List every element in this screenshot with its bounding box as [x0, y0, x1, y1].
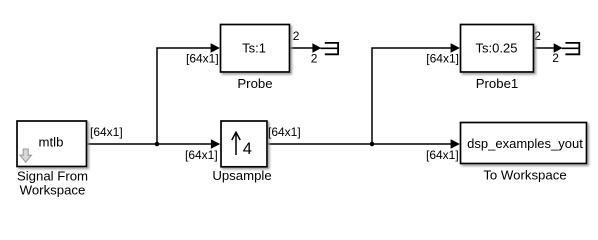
wire Probe output	[290, 47, 315, 49]
wire SFW output to junction A	[87, 143, 158, 145]
wire arrowhead into Probe	[211, 43, 220, 53]
wire main run junction A to Upsample input	[157, 143, 219, 145]
svg-text:Ts:0.25: Ts:0.25	[476, 41, 518, 56]
wire Probe1 output	[534, 47, 555, 49]
svg-text:2: 2	[311, 51, 318, 65]
svg-text:[64x1]: [64x1]	[426, 51, 459, 65]
svg-text:2: 2	[552, 51, 559, 65]
svg-text:Probe: Probe	[237, 76, 272, 91]
wire riser junction A up to Probe input	[157, 48, 218, 144]
terminator middle line after Probe1 arrowhead	[562, 47, 579, 49]
svg-text:mtlb: mtlb	[39, 135, 64, 150]
svg-text:Workspace: Workspace	[20, 183, 86, 198]
svg-text:Probe1: Probe1	[476, 76, 519, 91]
svg-text:dsp_examples_yout: dsp_examples_yout	[467, 136, 583, 151]
block Upsample	[221, 121, 267, 167]
svg-text:2: 2	[534, 29, 541, 43]
svg-text:[64x1]: [64x1]	[186, 51, 219, 65]
svg-text:[64x1]: [64x1]	[268, 125, 301, 139]
icon gray down arrow in SFW block	[20, 149, 31, 162]
icon up arrow in Upsample block	[235, 133, 237, 155]
svg-text:[64x1]: [64x1]	[185, 148, 218, 162]
wire Upsample output to junction B	[267, 143, 372, 145]
block Signal From Workspace	[17, 121, 87, 167]
junction B dot	[370, 142, 375, 147]
terminator bracket after Probe	[325, 43, 338, 54]
block Probe	[221, 25, 290, 73]
wire arrowhead at Probe output end	[312, 43, 321, 52]
wire main run junction B to To Workspace input	[372, 143, 458, 145]
svg-text:[64x1]: [64x1]	[426, 148, 459, 162]
terminator middle line after Probe arrowhead	[321, 47, 339, 49]
svg-text:[64x1]: [64x1]	[90, 125, 123, 139]
terminator bracket after Probe1	[565, 43, 579, 54]
junction A dot	[155, 142, 160, 147]
svg-text:4: 4	[243, 140, 252, 158]
svg-text:2: 2	[293, 29, 300, 43]
svg-text:Ts:1: Ts:1	[242, 41, 266, 56]
wire riser junction B up to Probe1 input	[372, 48, 458, 144]
wire arrowhead into Probe1	[451, 43, 460, 53]
svg-text:Signal From: Signal From	[17, 169, 88, 184]
svg-text:To Workspace: To Workspace	[483, 167, 566, 182]
wire arrowhead at Probe1 output end	[554, 43, 563, 52]
block Probe1	[461, 25, 534, 73]
wire arrowhead into Upsample	[211, 139, 220, 149]
svg-text:Upsample: Upsample	[212, 168, 271, 183]
wire arrowhead into To Workspace	[451, 139, 460, 149]
block To Workspace	[461, 123, 587, 164]
